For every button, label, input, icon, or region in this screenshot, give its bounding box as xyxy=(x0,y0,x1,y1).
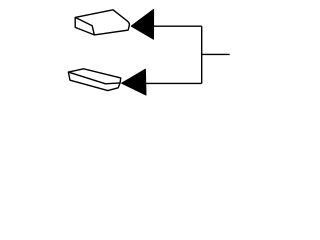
wire vertical bus xyxy=(201,26,203,83)
box B2 (bottom 3D slab) outline xyxy=(68,69,120,91)
box B1 (top 3D slab) outline xyxy=(75,10,129,35)
wire W1 (top horizontal) xyxy=(153,25,202,27)
arrowhead T1 (top, filled) xyxy=(131,9,153,39)
box B2 fold edges xyxy=(68,72,120,84)
box B1 fold edges xyxy=(75,17,94,35)
wire W2 (bottom horizontal) xyxy=(145,82,202,84)
wire stub (right) xyxy=(202,53,230,55)
arrowhead T2 (bottom, filled) xyxy=(122,69,146,95)
